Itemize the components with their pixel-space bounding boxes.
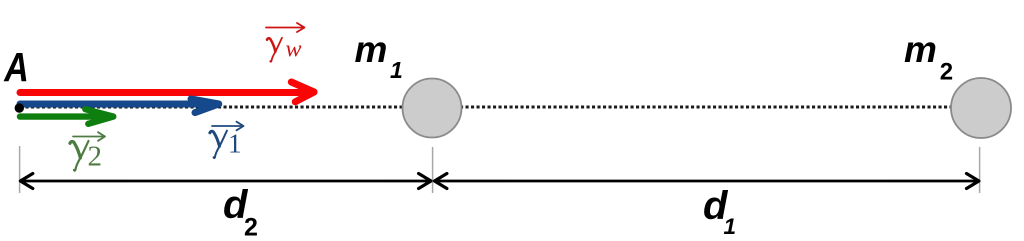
svg-text:1: 1 [724,214,737,239]
svg-text:1: 1 [390,57,403,83]
svg-text:2: 2 [940,59,953,86]
svg-text:m: m [904,29,937,70]
label gamma_w (red) [267,37,302,63]
mass m1 circle [403,79,462,138]
wire: dotted axis line [20,105,981,108]
tick at m2 [979,147,981,193]
svg-text:A: A [3,44,28,89]
svg-text:2: 2 [244,214,258,241]
svg-text:2: 2 [88,141,103,173]
label gamma_1 (blue) [210,129,242,159]
overbar arrow of gamma_2 [73,132,105,141]
vector gamma_1 (blue arrow) [20,99,219,113]
node A dot [15,103,24,112]
mass m2 circle [951,78,1011,138]
svg-text:w: w [286,37,302,63]
tick at A [19,146,21,193]
dimension d1 line with arrowheads [435,174,979,189]
vector gamma_2 (green arrow) [20,109,113,124]
vector gamma_w (red arrow) [20,82,314,102]
label gamma_2 (green) [70,141,102,173]
svg-text:m: m [355,29,388,70]
svg-text:1: 1 [228,129,242,159]
dimension d2 line with arrowheads [20,174,431,189]
overbar arrow of gamma_w [266,23,305,32]
overbar arrow of gamma_1 [212,122,244,131]
tick at m1 [432,147,434,193]
